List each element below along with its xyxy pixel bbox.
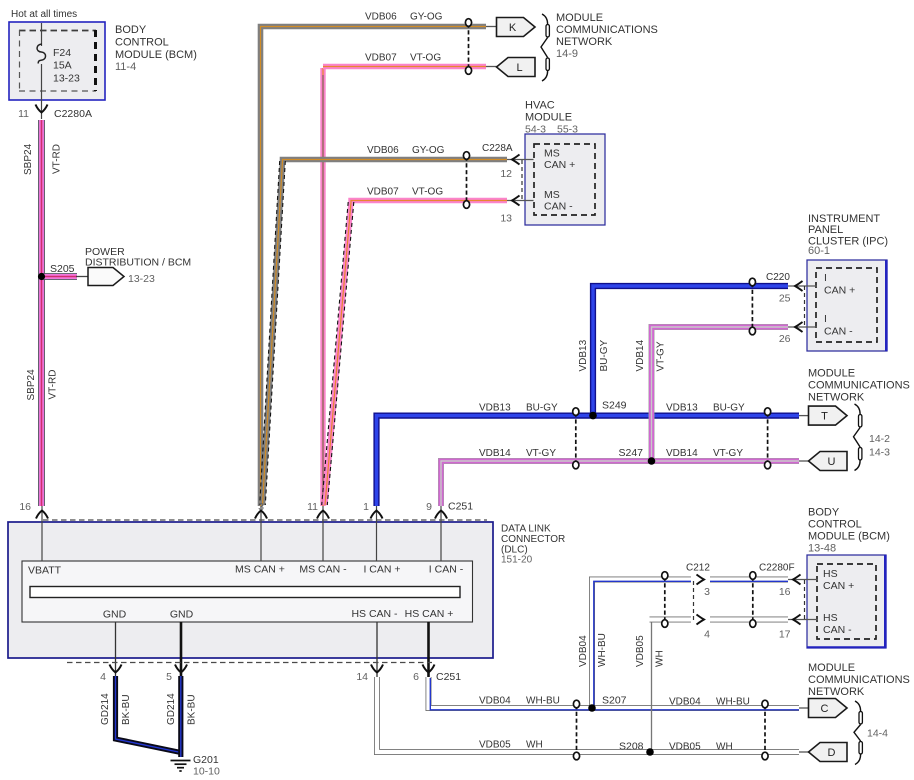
svg-text:11-4: 11-4 — [115, 61, 136, 73]
svg-text:T: T — [821, 411, 828, 423]
svg-text:GND: GND — [103, 609, 127, 621]
svg-text:25: 25 — [779, 293, 791, 305]
svg-text:U: U — [828, 456, 836, 468]
svg-text:BU-GY: BU-GY — [526, 403, 558, 414]
svg-text:F24: F24 — [53, 47, 71, 59]
svg-text:NETWORK: NETWORK — [808, 686, 865, 698]
svg-text:14-4: 14-4 — [867, 728, 888, 740]
svg-text:VT-RD: VT-RD — [48, 370, 59, 400]
svg-text:HS: HS — [823, 612, 838, 624]
svg-text:VT-GY: VT-GY — [656, 341, 667, 371]
svg-text:10-10: 10-10 — [193, 766, 220, 778]
svg-text:WH-BU: WH-BU — [526, 696, 560, 707]
svg-text:HS CAN +: HS CAN + — [405, 608, 454, 620]
svg-text:BODY: BODY — [808, 507, 840, 519]
svg-text:13: 13 — [500, 213, 512, 225]
svg-text:MODULE: MODULE — [808, 368, 855, 380]
svg-text:CONNECTOR: CONNECTOR — [501, 534, 565, 545]
svg-text:MS: MS — [544, 148, 560, 160]
svg-text:S249: S249 — [602, 400, 627, 412]
svg-text:13-23: 13-23 — [128, 273, 155, 285]
svg-text:CAN +: CAN + — [544, 159, 575, 171]
svg-text:VT-GY: VT-GY — [526, 448, 556, 459]
svg-text:6: 6 — [413, 671, 419, 683]
svg-text:GY-OG: GY-OG — [412, 145, 445, 156]
svg-text:GD214: GD214 — [100, 693, 111, 725]
svg-text:GND: GND — [170, 609, 194, 621]
svg-text:VDB05: VDB05 — [479, 740, 511, 751]
svg-text:14-9: 14-9 — [556, 48, 578, 60]
svg-text:C228A: C228A — [482, 143, 513, 154]
svg-text:VDB05: VDB05 — [669, 742, 701, 753]
svg-text:16: 16 — [779, 586, 791, 598]
svg-text:11: 11 — [18, 108, 29, 120]
svg-text:VDB04: VDB04 — [578, 635, 589, 667]
svg-text:VDB04: VDB04 — [669, 697, 701, 708]
svg-text:C2280F: C2280F — [759, 563, 795, 574]
svg-text:VDB13: VDB13 — [479, 403, 511, 414]
svg-text:15A: 15A — [53, 60, 72, 72]
svg-text:WH: WH — [655, 650, 666, 667]
svg-text:BK-BU: BK-BU — [121, 694, 132, 725]
svg-text:1: 1 — [363, 501, 369, 513]
svg-text:PANEL: PANEL — [808, 224, 843, 236]
svg-text:BU-GY: BU-GY — [599, 340, 610, 372]
svg-text:C2280A: C2280A — [54, 108, 92, 120]
svg-text:Hot at all times: Hot at all times — [11, 9, 77, 20]
svg-text:WH-BU: WH-BU — [597, 633, 608, 667]
svg-text:S205: S205 — [50, 263, 75, 275]
svg-text:COMMUNICATIONS: COMMUNICATIONS — [556, 24, 658, 36]
svg-text:13-23: 13-23 — [53, 73, 80, 85]
svg-text:C220: C220 — [766, 272, 790, 283]
svg-text:VT-OG: VT-OG — [410, 53, 441, 64]
svg-text:VT-GY: VT-GY — [713, 448, 743, 459]
svg-text:55-3: 55-3 — [557, 124, 578, 136]
svg-text:CONTROL: CONTROL — [808, 519, 862, 531]
svg-text:CAN -: CAN - — [544, 201, 573, 213]
svg-text:K: K — [509, 22, 517, 34]
svg-text:11: 11 — [307, 501, 318, 513]
svg-text:SBP24: SBP24 — [26, 369, 37, 401]
svg-text:SBP24: SBP24 — [23, 143, 34, 175]
svg-text:GY-OG: GY-OG — [410, 12, 443, 23]
svg-text:HVAC: HVAC — [525, 100, 555, 112]
svg-text:4: 4 — [100, 671, 106, 683]
svg-text:DISTRIBUTION / BCM: DISTRIBUTION / BCM — [85, 257, 191, 269]
svg-text:S247: S247 — [619, 447, 644, 459]
svg-text:VDB06: VDB06 — [367, 145, 399, 156]
svg-text:VDB14: VDB14 — [479, 448, 511, 459]
svg-text:C251: C251 — [448, 501, 473, 513]
svg-text:WH: WH — [526, 740, 543, 751]
svg-text:MS: MS — [544, 189, 560, 201]
svg-text:COMMUNICATIONS: COMMUNICATIONS — [808, 674, 910, 686]
svg-text:VT-OG: VT-OG — [412, 187, 443, 198]
svg-text:I CAN -: I CAN - — [429, 564, 464, 576]
svg-text:VT-RD: VT-RD — [52, 144, 63, 174]
svg-text:CAN +: CAN + — [824, 285, 855, 297]
svg-text:VDB07: VDB07 — [367, 187, 399, 198]
svg-text:CAN -: CAN - — [824, 326, 853, 338]
svg-text:MODULE: MODULE — [556, 12, 603, 24]
svg-text:VDB13: VDB13 — [666, 403, 698, 414]
svg-text:60-1: 60-1 — [808, 245, 830, 257]
svg-text:54-3: 54-3 — [525, 124, 546, 136]
svg-text:4: 4 — [704, 629, 710, 641]
svg-text:151-20: 151-20 — [501, 555, 533, 566]
svg-text:14: 14 — [356, 671, 368, 683]
svg-text:C212: C212 — [686, 563, 710, 574]
svg-text:17: 17 — [779, 629, 791, 641]
svg-text:16: 16 — [19, 501, 31, 513]
svg-text:MS CAN +: MS CAN + — [235, 564, 285, 576]
svg-text:MODULE (BCM): MODULE (BCM) — [808, 531, 890, 543]
svg-text:NETWORK: NETWORK — [808, 392, 865, 404]
svg-text:WH-BU: WH-BU — [716, 697, 750, 708]
svg-text:BODY: BODY — [115, 24, 147, 36]
svg-text:HS CAN -: HS CAN - — [351, 608, 398, 620]
svg-text:C251: C251 — [436, 671, 461, 683]
svg-text:5: 5 — [166, 671, 172, 683]
svg-text:WH: WH — [716, 742, 733, 753]
svg-text:VDB04: VDB04 — [479, 696, 511, 707]
svg-text:VDB07: VDB07 — [365, 53, 397, 64]
svg-text:VDB05: VDB05 — [635, 635, 646, 667]
svg-text:I CAN +: I CAN + — [363, 564, 400, 576]
svg-text:INSTRUMENT: INSTRUMENT — [808, 213, 880, 225]
svg-text:G201: G201 — [193, 754, 219, 766]
svg-text:14-2: 14-2 — [869, 433, 890, 445]
svg-text:DATA LINK: DATA LINK — [501, 524, 551, 535]
svg-text:BK-BU: BK-BU — [187, 694, 198, 725]
svg-text:HS: HS — [823, 568, 838, 580]
svg-text:MS CAN -: MS CAN - — [299, 564, 347, 576]
svg-text:CAN +: CAN + — [823, 580, 854, 592]
svg-text:S207: S207 — [602, 695, 627, 707]
svg-text:VBATT: VBATT — [28, 565, 62, 577]
svg-text:C: C — [821, 703, 829, 715]
svg-text:CAN -: CAN - — [823, 624, 852, 636]
svg-text:MODULE: MODULE — [525, 112, 572, 124]
svg-text:I: I — [824, 272, 827, 284]
svg-text:14-3: 14-3 — [869, 447, 890, 459]
svg-text:VDB06: VDB06 — [365, 12, 397, 23]
svg-text:VDB14: VDB14 — [635, 339, 646, 371]
svg-text:S208: S208 — [619, 741, 644, 753]
svg-text:26: 26 — [779, 333, 791, 345]
svg-text:12: 12 — [500, 168, 512, 180]
svg-text:VDB13: VDB13 — [578, 339, 589, 371]
svg-text:D: D — [828, 747, 836, 759]
svg-text:3: 3 — [704, 586, 710, 598]
svg-text:L: L — [516, 62, 522, 74]
svg-text:3: 3 — [258, 501, 264, 513]
svg-text:13-48: 13-48 — [808, 543, 836, 555]
svg-text:NETWORK: NETWORK — [556, 36, 613, 48]
svg-text:MODULE: MODULE — [808, 662, 855, 674]
svg-text:MODULE (BCM): MODULE (BCM) — [115, 49, 197, 61]
svg-text:BU-GY: BU-GY — [713, 403, 745, 414]
svg-text:VDB14: VDB14 — [666, 448, 698, 459]
svg-text:9: 9 — [426, 501, 432, 513]
svg-text:I: I — [824, 313, 827, 325]
svg-text:COMMUNICATIONS: COMMUNICATIONS — [808, 380, 910, 392]
svg-text:GD214: GD214 — [166, 693, 177, 725]
svg-text:CONTROL: CONTROL — [115, 37, 169, 49]
